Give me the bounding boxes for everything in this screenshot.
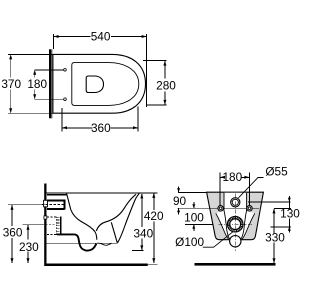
svg-text:Ø100: Ø100 <box>175 235 204 249</box>
svg-text:330: 330 <box>265 231 285 245</box>
svg-text:360: 360 <box>91 121 111 135</box>
svg-text:100: 100 <box>184 210 204 224</box>
svg-text:280: 280 <box>156 79 176 93</box>
svg-text:540: 540 <box>91 30 111 44</box>
svg-text:180: 180 <box>27 77 47 91</box>
svg-text:Ø55: Ø55 <box>265 165 288 179</box>
svg-text:90: 90 <box>173 194 187 208</box>
svg-text:230: 230 <box>19 240 39 254</box>
svg-text:130: 130 <box>280 207 300 221</box>
svg-text:370: 370 <box>1 77 21 91</box>
svg-text:340: 340 <box>133 226 153 240</box>
svg-text:360: 360 <box>3 225 23 239</box>
svg-text:420: 420 <box>144 209 164 223</box>
svg-text:180: 180 <box>222 170 242 184</box>
